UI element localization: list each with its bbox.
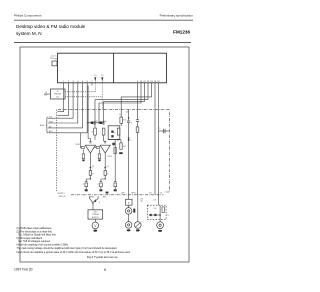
accessory resistor	[162, 207, 164, 213]
VT supply box	[88, 210, 103, 219]
svg-text:+5V: +5V	[149, 193, 153, 195]
svg-text:VT: VT	[160, 193, 163, 195]
svg-text:Desktop video & FM radio modul: Desktop video & FM radio module	[16, 24, 86, 29]
lower chassis dash-dot bus	[71, 194, 164, 196]
+5V arrow 2	[101, 77, 103, 83]
junction cap row left	[87, 122, 88, 123]
svg-text:S: S	[114, 133, 116, 135]
svg-text:75 Ω typ: 75 Ω typ	[50, 57, 58, 60]
svg-text:R: R	[92, 173, 94, 175]
pin stub 12	[140, 83, 142, 86]
resistor R4	[102, 128, 105, 135]
phono jack J3	[135, 222, 142, 229]
accessory cap blob 1	[150, 214, 152, 216]
phono jack J4	[157, 222, 164, 229]
svg-text:12V: 12V	[154, 208, 158, 210]
pin9 wire segments	[137, 121, 139, 127]
electrolytic capacitor C2	[100, 121, 108, 125]
svg-text:L: L	[142, 222, 143, 224]
wire pin5 to bus line 3	[48, 86, 83, 128]
svg-text:AF R: AF R	[132, 192, 137, 195]
header rule	[14, 19, 193, 22]
title rule	[14, 41, 191, 44]
J4 ground blob	[158, 230, 162, 232]
svg-text:S: S	[99, 202, 101, 204]
VT supply box wire	[92, 205, 94, 210]
R10 ground blob	[119, 152, 122, 154]
dashed accessory box	[147, 205, 166, 219]
resistor R10	[120, 143, 122, 149]
U2 chain lower wire	[101, 175, 105, 181]
svg-text:+ 5V: + 5V	[153, 199, 158, 201]
resistor R7 wire+blob	[82, 149, 84, 154]
J3 ground blob	[136, 229, 140, 231]
svg-text:The main tuning voltage should: The main tuning voltage should be stabil…	[17, 247, 118, 250]
svg-text:R: R	[107, 173, 109, 175]
resistor R9	[104, 171, 106, 176]
U2 chain junction	[104, 167, 106, 169]
electrolytic capacitor C5	[83, 182, 88, 187]
decoupling column x129 top wire	[128, 110, 130, 121]
U2 output chain wire	[104, 153, 106, 171]
antenna input connector	[52, 61, 57, 66]
svg-text:C: C	[131, 122, 133, 124]
U2 second ground blob	[106, 192, 109, 194]
svg-text:TV AF: TV AF	[75, 143, 80, 146]
filter element 2	[111, 135, 113, 137]
electrolytic capacitor C6	[97, 182, 102, 187]
pin stub 17	[158, 83, 160, 86]
figure frame	[20, 47, 189, 262]
svg-text:F: F	[128, 201, 130, 205]
wire pin2 bend	[58, 86, 69, 116]
resistor R3 wires	[94, 123, 96, 128]
dashed bus vertical left	[56, 110, 58, 192]
pin stub 5	[82, 83, 84, 86]
svg-text:Preliminary specification: Preliminary specification	[160, 14, 194, 18]
capacitor C9 on pin9 wire	[136, 120, 139, 122]
J2 ground blob	[127, 229, 131, 231]
resistor R2 in filter	[117, 128, 120, 135]
svg-text:(2): (2)	[107, 166, 110, 168]
C4 bottom wire	[128, 123, 130, 195]
svg-text:TL072: TL072	[107, 156, 112, 158]
accessory wire	[152, 214, 160, 216]
wire pin15 down	[158, 86, 160, 205]
op-amp U1 triangle	[85, 145, 95, 153]
svg-text:BUS: BUS	[40, 125, 45, 127]
svg-text:AF(1): AF(1)	[90, 196, 95, 199]
I2C bus brace	[46, 117, 48, 133]
svg-text:GND (3): GND (3)	[59, 196, 66, 198]
AF coupling capacitor C20	[164, 129, 165, 133]
pin stub 14	[147, 83, 149, 86]
wire pin12 bend left	[95, 86, 148, 123]
U2 chain junction 2	[105, 178, 106, 179]
accessory junction	[159, 214, 161, 216]
resistor R7b at U2 input	[98, 154, 100, 159]
op-amp U1 left input resistor	[81, 147, 84, 149]
dash-dot chassis bus top	[58, 110, 169, 192]
op-amp U1 input wire	[79, 133, 82, 148]
VT switch wires	[90, 196, 93, 205]
connector column square box	[126, 199, 132, 205]
svg-text:(2): (2)	[92, 166, 95, 168]
VT meter wire	[94, 219, 96, 222]
capacitor C4	[127, 121, 130, 123]
svg-text:C: C	[131, 140, 133, 142]
pin stub 4	[77, 83, 79, 86]
ceramic filter box	[108, 126, 120, 140]
wire pin9 straight down	[137, 86, 139, 120]
wire jack1 to jack2	[128, 214, 130, 221]
+5V arrow 1	[94, 77, 96, 83]
svg-text:ant. in: ant. in	[51, 55, 56, 58]
pin stub 13	[144, 83, 146, 86]
junction dot filter bottom	[117, 139, 119, 141]
op-amp U1 top feed wire	[88, 135, 90, 141]
U1 chain junction 2	[90, 178, 91, 179]
IF box left wire	[44, 93, 51, 95]
wire pin3 to bus line 1	[48, 86, 73, 118]
svg-text:47k: 47k	[123, 120, 126, 122]
wire into square	[128, 195, 130, 199]
U1 ground blob	[85, 189, 88, 191]
svg-text:band circuit can stabilize a t: band circuit can stabilize a typical val…	[17, 251, 131, 254]
pin stub 7	[91, 83, 93, 86]
VT meter ground blob	[93, 230, 97, 232]
resistor R8	[89, 171, 91, 176]
pin stub 11	[137, 83, 139, 86]
junction dot x129 top	[128, 117, 130, 119]
svg-text:n.c.: n.c.	[158, 128, 161, 130]
U1 chain lower wire	[86, 175, 90, 181]
VT meter circle	[92, 222, 99, 229]
svg-text:SCL: SCL	[49, 117, 53, 119]
junction dot x129 AF	[128, 139, 130, 141]
C7 ground blob	[114, 189, 117, 191]
svg-text:h: h	[168, 215, 169, 217]
svg-text:Fig.2 Typical test set-up.: Fig.2 Typical test set-up.	[87, 255, 118, 259]
wire pin10 bend left	[99, 86, 141, 123]
pin stub 16	[154, 83, 156, 86]
wire pin1 bend	[58, 86, 64, 112]
IF test box	[51, 89, 66, 99]
resistor R6 on pin9 wire	[136, 127, 139, 132]
phono jack J2	[125, 222, 132, 229]
svg-text:system M, N: system M, N	[16, 31, 42, 36]
junction cap row mid	[98, 122, 99, 123]
svg-text:(4): (4)	[141, 201, 144, 203]
svg-text:(5): (5)	[105, 121, 108, 123]
wire pin6 to bus line 4	[48, 86, 87, 133]
accessory vertical wire	[159, 205, 161, 222]
svg-text:1997 Feb 20: 1997 Feb 20	[14, 268, 33, 272]
wire bus to jack3	[137, 195, 139, 222]
svg-text:(6): (6)	[126, 112, 129, 114]
AF coupling wire to shield	[159, 130, 170, 132]
svg-text:TU: TU	[94, 75, 97, 77]
wire pin14 down	[154, 86, 156, 195]
resistor R4 wire	[103, 135, 105, 141]
J1 side capacitor	[133, 209, 135, 213]
svg-text:V: V	[94, 224, 97, 228]
supply rail capacitor blobs	[112, 140, 116, 182]
U1 output chain wire	[89, 153, 91, 171]
svg-text:SUPPLY: SUPPLY	[92, 217, 100, 219]
cap row wire	[88, 122, 104, 124]
svg-text:test: test	[56, 95, 60, 98]
tuner module box FM1236	[58, 53, 167, 83]
svg-text:Philips Components: Philips Components	[14, 14, 42, 18]
electrolytic capacitor C1	[91, 121, 99, 125]
pin stub 3	[72, 83, 74, 86]
R10 wires	[120, 140, 122, 143]
wire pin13 bend left	[121, 86, 151, 117]
op-amp U2 top feed wire	[104, 140, 106, 142]
op-amp U2 input wire	[95, 146, 96, 149]
junction dot x128	[128, 137, 130, 139]
wire pin11 bend left	[104, 86, 145, 123]
svg-text:C: C	[97, 184, 99, 186]
svg-text:AFC: AFC	[103, 195, 107, 198]
electrolytic capacitor C7	[114, 182, 117, 187]
svg-text:FM1236: FM1236	[173, 30, 190, 35]
wire square to jack1	[128, 205, 130, 207]
pin stub 15	[151, 83, 153, 86]
filter element 1	[111, 131, 113, 133]
resistor R1	[120, 117, 123, 123]
op-amp U2 input coupling cap	[104, 142, 106, 143]
svg-text:AF L: AF L	[122, 192, 126, 195]
svg-text:TU: TU	[101, 75, 104, 77]
op-amp U2 triangle	[100, 145, 110, 153]
VT switch lever	[92, 200, 96, 204]
wire pin7 down	[87, 86, 89, 136]
pin stub 2	[67, 83, 69, 86]
op-amp U1 input coupling cap	[89, 142, 91, 143]
U2 ground blob	[99, 189, 102, 191]
resistor R3	[94, 128, 97, 135]
IF box dashed wire 1	[65, 91, 95, 93]
resistor R7 at U1 input	[82, 154, 84, 159]
wire R1 down	[120, 123, 122, 126]
wire pin4 to bus line 2	[48, 86, 78, 123]
module internal divider	[113, 53, 115, 83]
U1 chain junction	[90, 167, 92, 169]
phono jack J1	[125, 208, 132, 215]
pin stub 6	[86, 83, 88, 86]
svg-text:C: C	[83, 184, 85, 186]
op-amp U2 left input resistor	[96, 147, 99, 149]
wire filter bottom	[108, 139, 121, 141]
pin stub 1	[63, 83, 65, 86]
svg-text:4k7: 4k7	[123, 146, 126, 148]
svg-text:(1) RGB video output addresses: (1) RGB video output addresses.	[17, 227, 53, 230]
svg-text:8: 8	[104, 268, 106, 272]
IF box dashed wire 2	[65, 96, 102, 98]
accessory cap blob 2	[154, 214, 156, 216]
svg-text:FM1236: FM1236	[54, 94, 61, 96]
